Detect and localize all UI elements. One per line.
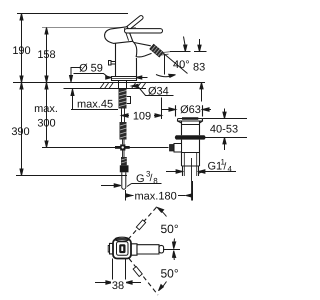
rod below cross — [123, 151, 125, 158]
drain flange lip — [178, 119, 203, 122]
svg-text:Ø63: Ø63 — [180, 104, 201, 116]
drain clamp disc — [175, 135, 206, 139]
50 degree arcs and arrows (lower) — [173, 254, 176, 261]
svg-text:/: / — [150, 173, 153, 184]
lever diagonal stick — [121, 15, 144, 34]
base plate — [112, 77, 137, 81]
supply line reference / pop-up rod line — [42, 147, 169, 149]
svg-text:8: 8 — [153, 177, 158, 186]
spout level reference line — [170, 51, 207, 53]
lever axis line — [163, 249, 180, 251]
shank through counter — [115, 81, 131, 190]
svg-text:390: 390 — [11, 126, 29, 138]
lever top view — [131, 244, 137, 255]
dashed swing lines — [128, 206, 158, 240]
svg-text:max.180: max.180 — [135, 191, 177, 203]
dimension 158 — [45, 28, 48, 83]
handle dome — [105, 27, 133, 44]
50 degree arcs and arrows (upper) — [160, 210, 167, 217]
svg-text:190: 190 — [12, 45, 30, 57]
lever horizontal stick — [125, 29, 163, 33]
top reference line (max height) — [17, 13, 128, 15]
svg-text:109: 109 — [133, 111, 151, 123]
counter bottom line — [64, 88, 147, 90]
svg-text:4: 4 — [228, 165, 233, 174]
svg-text:40-53: 40-53 — [210, 124, 238, 136]
svg-text:40°: 40° — [173, 59, 190, 71]
drain assembly — [162, 105, 211, 200]
cross fitting — [115, 146, 130, 149]
dimension 390 — [20, 83, 23, 176]
nut — [120, 165, 129, 172]
threaded shank below counter — [119, 89, 127, 109]
threaded section 2 — [121, 157, 127, 165]
dimension max.180 — [125, 190, 127, 201]
dimension 109 — [121, 110, 123, 124]
svg-text:50°: 50° — [161, 267, 179, 281]
svg-text:50°: 50° — [161, 222, 179, 236]
pop-up knob on left — [109, 61, 116, 66]
spout stub left — [110, 243, 114, 254]
rod between — [122, 109, 125, 123]
label max.45 — [71, 67, 82, 69]
mounting tab — [127, 97, 131, 104]
tailpipe — [183, 166, 199, 176]
svg-text:158: 158 — [37, 49, 55, 61]
faucet body side view — [105, 15, 163, 81]
40 degree annotation — [164, 55, 166, 75]
drain body tube upper — [182, 121, 200, 135]
label G1 1/4 with leaders — [166, 171, 177, 173]
body outline — [116, 41, 152, 76]
side knob — [174, 144, 182, 153]
dimension 190 — [20, 14, 23, 83]
counter hatching — [100, 83, 146, 89]
top view faucet body — [108, 237, 163, 258]
dimension max.300 — [45, 83, 48, 148]
svg-text:max.: max. — [34, 103, 58, 115]
svg-text:Ø 59: Ø 59 — [79, 63, 103, 75]
dimension 38 — [113, 259, 126, 288]
spout aerator — [150, 44, 172, 57]
svg-text:300: 300 — [37, 118, 55, 130]
centerline below — [191, 158, 193, 201]
Ø63 dimension — [176, 105, 203, 116]
lever-top reference line (gray) — [42, 27, 136, 29]
threaded hose top section — [120, 122, 127, 140]
counter top line — [13, 82, 205, 84]
hose-end reference line — [16, 175, 127, 177]
svg-text:/: / — [224, 162, 227, 173]
hose to bottom — [122, 172, 126, 188]
svg-text:38: 38 — [112, 280, 124, 292]
dimension 83 — [199, 39, 201, 45]
drain body tube lower — [182, 140, 200, 166]
svg-text:max.45: max.45 — [77, 99, 113, 111]
svg-text:83: 83 — [193, 62, 205, 74]
dimension 40-53 — [203, 118, 248, 120]
